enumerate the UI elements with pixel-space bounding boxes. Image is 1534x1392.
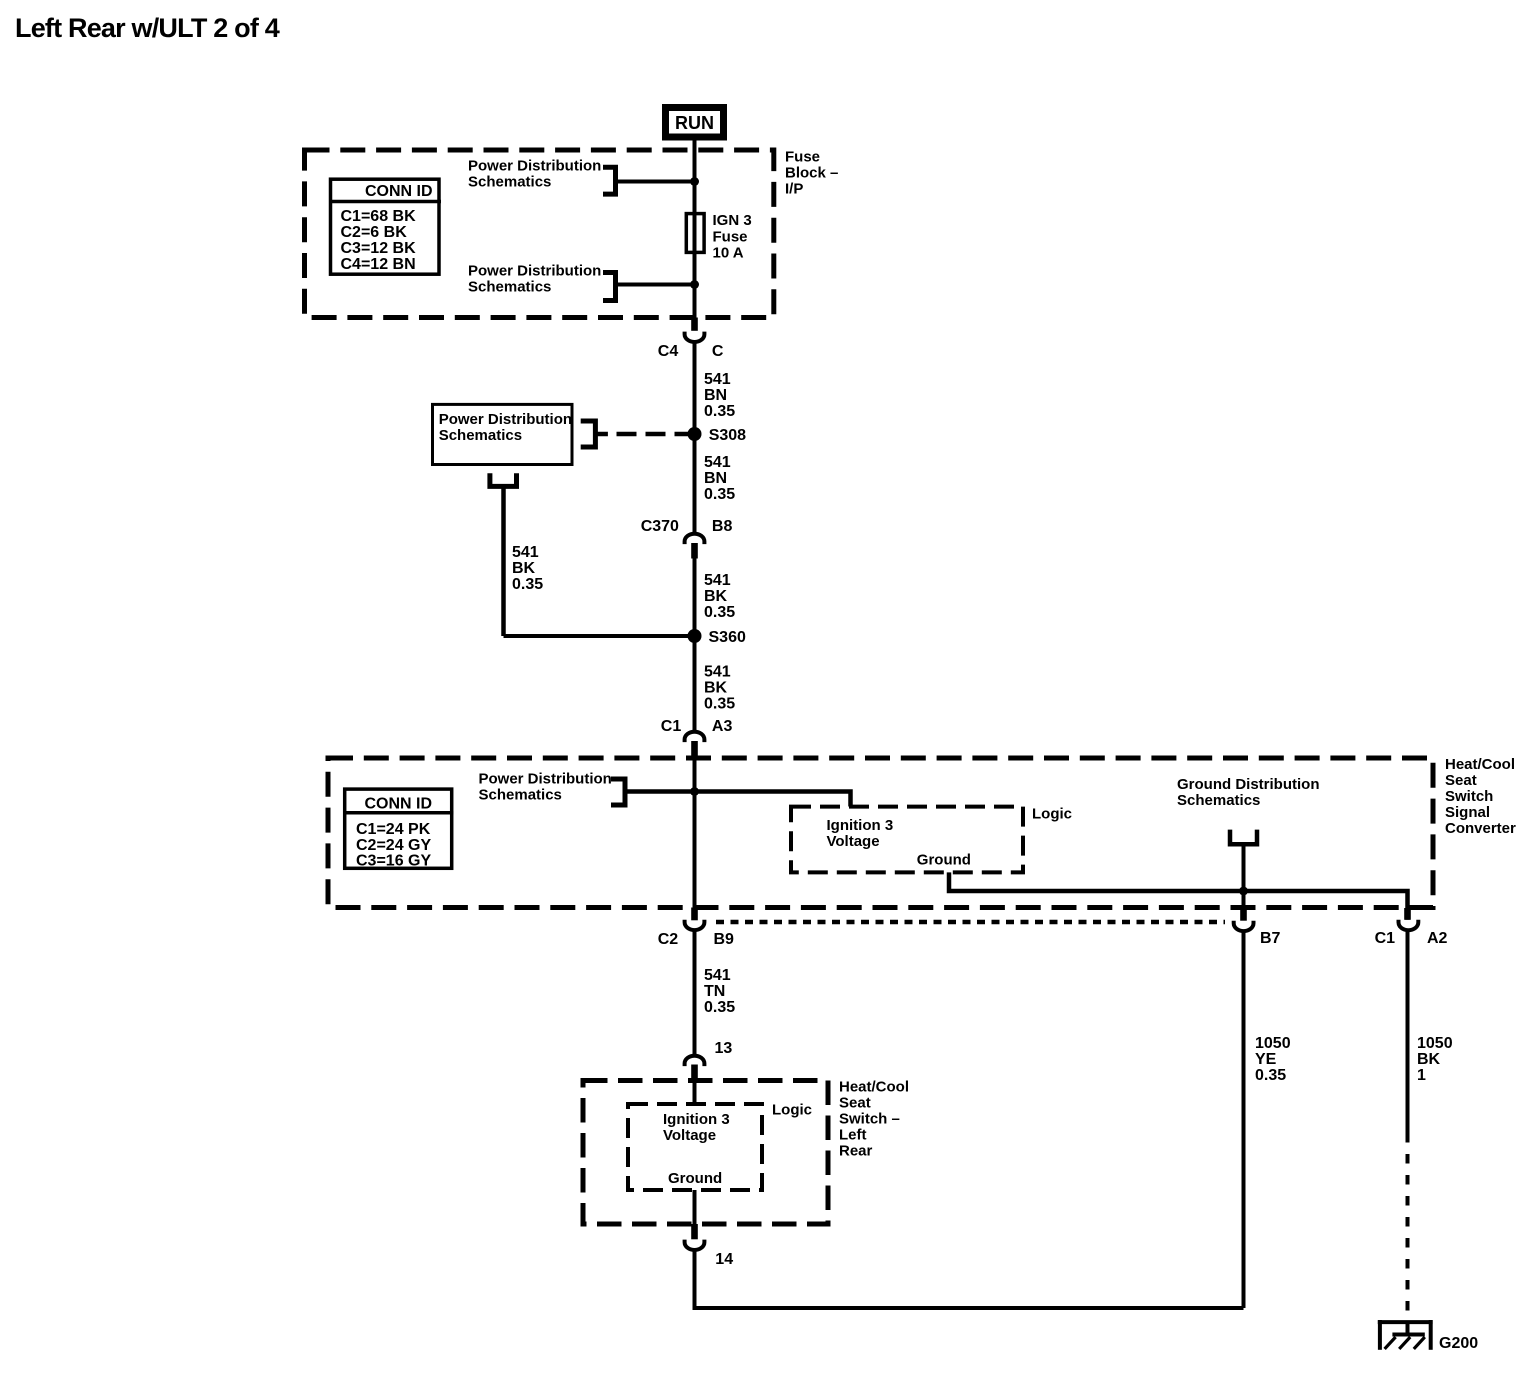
node junction lower xyxy=(690,280,699,289)
svg-text:0.35: 0.35 xyxy=(704,604,735,621)
wire A2 down solid xyxy=(1406,930,1410,1133)
svg-text:Logic: Logic xyxy=(1032,806,1072,823)
wire label 541 BN 0.35 (1) xyxy=(704,371,735,420)
bracket right of box xyxy=(581,421,596,447)
svg-text:Schematics: Schematics xyxy=(468,279,551,296)
wire stub below connector xyxy=(691,741,698,757)
svg-text:541: 541 xyxy=(704,454,731,471)
svg-text:Ground: Ground xyxy=(668,1170,722,1187)
svg-text:S308: S308 xyxy=(709,427,746,444)
svg-text:Schematics: Schematics xyxy=(1177,792,1260,809)
svg-text:Fuse: Fuse xyxy=(785,149,820,166)
svg-text:Ignition 3: Ignition 3 xyxy=(827,817,894,834)
svg-text:C2=24 GY: C2=24 GY xyxy=(356,837,431,854)
svg-text:Power Distribution: Power Distribution xyxy=(468,263,601,280)
svg-text:541: 541 xyxy=(704,967,731,984)
svg-text:BK: BK xyxy=(512,560,536,577)
bracket below power distribution box xyxy=(490,473,517,486)
svg-text:Left: Left xyxy=(839,1127,867,1144)
fuse block I/P dashed box xyxy=(305,150,774,318)
svg-text:B7: B7 xyxy=(1260,930,1281,947)
bracket upper power distribution xyxy=(603,167,616,194)
fuse IGN 3 10A xyxy=(686,213,704,253)
svg-text:Schematics: Schematics xyxy=(468,174,551,191)
svg-text:1050: 1050 xyxy=(1417,1035,1453,1052)
label Heat/Cool Seat Switch - Left Rear xyxy=(839,1079,909,1160)
svg-text:Power Distribution: Power Distribution xyxy=(479,771,612,788)
bracket lower power distribution xyxy=(603,273,616,301)
label Power Distribution Schematics (lower) xyxy=(468,263,601,296)
svg-text:0.35: 0.35 xyxy=(704,403,735,420)
svg-text:B8: B8 xyxy=(712,518,733,535)
svg-text:BN: BN xyxy=(704,387,727,404)
svg-text:1: 1 xyxy=(1417,1067,1426,1084)
svg-text:C1: C1 xyxy=(661,718,682,735)
wire label 541 BK 0.35 (3) xyxy=(704,572,735,621)
svg-text:Power Distribution: Power Distribution xyxy=(439,411,572,428)
logic dashed box (switch) xyxy=(628,1104,762,1190)
node S308 xyxy=(688,427,702,441)
wire label 541 BN 0.35 (2) xyxy=(704,454,735,503)
wire A2 dashed to ground xyxy=(1406,1133,1410,1321)
svg-text:Ignition 3: Ignition 3 xyxy=(663,1111,730,1128)
svg-text:A2: A2 xyxy=(1427,930,1448,947)
switch RUN (ignition switch position) xyxy=(666,108,724,138)
svg-text:0.35: 0.35 xyxy=(704,486,735,503)
svg-text:S360: S360 xyxy=(709,629,746,646)
svg-text:C1=24 PK: C1=24 PK xyxy=(356,821,431,838)
svg-text:13: 13 xyxy=(715,1040,733,1057)
svg-text:Ground Distribution: Ground Distribution xyxy=(1177,776,1319,793)
wire ground out of switch xyxy=(693,1190,697,1224)
svg-text:541: 541 xyxy=(512,544,539,561)
svg-text:CONN ID: CONN ID xyxy=(365,796,433,813)
wire B7 to bottom xyxy=(1242,933,1246,1309)
wire label 1050 BK 1 xyxy=(1417,1035,1453,1084)
wire nub from bracket xyxy=(595,432,608,437)
svg-text:Left Rear w/ULT 2 of 4: Left Rear w/ULT 2 of 4 xyxy=(15,13,280,43)
dotted wire C2/B9 to B7 xyxy=(716,920,1225,925)
svg-text:BK: BK xyxy=(704,588,728,605)
label Ignition 3 Voltage (switch) xyxy=(663,1111,730,1144)
wire from RUN to fuse xyxy=(693,140,697,213)
node junction upper xyxy=(690,177,699,186)
label Power Distribution Schematics (upper) xyxy=(468,158,601,191)
svg-text:Switch –: Switch – xyxy=(839,1111,900,1128)
wire stub below 13 xyxy=(691,1065,698,1082)
svg-text:Power Distribution: Power Distribution xyxy=(468,158,601,175)
svg-text:Seat: Seat xyxy=(839,1095,871,1112)
svg-text:TN: TN xyxy=(704,983,725,1000)
svg-text:Fuse: Fuse xyxy=(713,229,748,246)
svg-text:1050: 1050 xyxy=(1255,1035,1291,1052)
bracket power distribution converter xyxy=(611,779,625,805)
svg-text:Ground: Ground xyxy=(917,852,971,869)
wire stub into connector xyxy=(691,318,698,331)
box Power Distribution Schematics xyxy=(433,404,573,464)
svg-text:Schematics: Schematics xyxy=(479,787,562,804)
wire A3 into converter xyxy=(693,757,697,908)
wire bracket to ignition3 logic xyxy=(625,792,851,807)
svg-text:Voltage: Voltage xyxy=(663,1127,716,1144)
wire stub A2 xyxy=(1404,908,1411,920)
svg-text:B9: B9 xyxy=(714,931,735,948)
wire B8 to S360 xyxy=(693,558,697,636)
svg-text:14: 14 xyxy=(715,1251,733,1268)
connector B7 cup xyxy=(1234,921,1254,931)
svg-text:Signal: Signal xyxy=(1445,804,1490,821)
wire ground from logic box to A2 xyxy=(949,872,1408,919)
svg-text:541: 541 xyxy=(704,371,731,388)
node junction B7 xyxy=(1239,887,1248,896)
svg-text:0.35: 0.35 xyxy=(512,576,543,593)
svg-text:0.35: 0.35 xyxy=(704,999,735,1016)
svg-text:C3=16 GY: C3=16 GY xyxy=(356,853,431,870)
svg-text:541: 541 xyxy=(704,572,731,589)
wire bracket to node xyxy=(616,283,696,287)
svg-text:Block –: Block – xyxy=(785,165,838,182)
svg-text:C1: C1 xyxy=(1375,930,1396,947)
svg-text:A3: A3 xyxy=(712,718,733,735)
connector C1/A2 cup xyxy=(1399,920,1419,930)
svg-text:BK: BK xyxy=(704,680,728,697)
label IGN 3 Fuse 10 A xyxy=(713,212,752,262)
CONN ID table (converter) xyxy=(343,789,453,869)
svg-text:C2=6 BK: C2=6 BK xyxy=(341,224,408,241)
svg-text:BK: BK xyxy=(1417,1051,1441,1068)
svg-text:C3=12 BK: C3=12 BK xyxy=(341,240,417,257)
svg-text:541: 541 xyxy=(704,664,731,681)
wire 14 down and right to B7 wire xyxy=(695,1252,1244,1309)
svg-text:Rear: Rear xyxy=(839,1143,873,1160)
wire fuse to connector C4 xyxy=(693,253,697,318)
svg-text:Heat/Cool: Heat/Cool xyxy=(1445,756,1515,773)
wire label 541 BK 0.35 (left branch) xyxy=(512,544,543,593)
wire C to S308 xyxy=(693,344,697,534)
connector C370/B8 dome xyxy=(685,534,705,544)
svg-text:Seat: Seat xyxy=(1445,772,1477,789)
wire label 1050 YE 0.35 xyxy=(1255,1035,1291,1084)
switch dashed box Heat/Cool Seat Switch Left Rear xyxy=(583,1081,828,1225)
wire 13 into switch xyxy=(693,1081,697,1104)
wire B9 down to 13 xyxy=(693,932,697,1055)
CONN ID table (fuse block) xyxy=(329,179,441,274)
connector C1/A3 dome xyxy=(685,732,705,742)
svg-text:Logic: Logic xyxy=(772,1102,812,1119)
logic dashed box (converter) xyxy=(791,807,1023,873)
svg-text:RUN: RUN xyxy=(675,113,714,133)
svg-text:10 A: 10 A xyxy=(713,245,744,262)
node junction on main wire xyxy=(690,787,699,796)
wire B7 down to connector xyxy=(1242,891,1246,920)
connector C4/C cup xyxy=(685,332,705,342)
dashed wire to S308 xyxy=(617,432,695,437)
label Fuse Block - I/P xyxy=(785,149,838,198)
ground G200 symbol xyxy=(1378,1320,1433,1350)
wire left branch to S360 xyxy=(504,634,696,638)
svg-text:BN: BN xyxy=(704,470,727,487)
converter dashed box Heat/Cool Seat Switch Signal Converter xyxy=(328,758,1433,908)
svg-text:Schematics: Schematics xyxy=(439,427,522,444)
wire stub B7 xyxy=(1240,908,1247,921)
svg-text:Switch: Switch xyxy=(1445,788,1493,805)
svg-text:0.35: 0.35 xyxy=(1255,1067,1286,1084)
svg-text:C4=12 BN: C4=12 BN xyxy=(341,256,416,273)
bracket ground distribution xyxy=(1230,830,1257,845)
wire ground distribution down xyxy=(1242,844,1246,891)
svg-text:IGN 3: IGN 3 xyxy=(713,212,752,229)
svg-text:CONN ID: CONN ID xyxy=(365,183,433,200)
label Power Distribution Schematics (converter) xyxy=(479,771,612,804)
svg-text:C4: C4 xyxy=(658,343,679,360)
svg-text:Heat/Cool: Heat/Cool xyxy=(839,1079,909,1096)
svg-text:0.35: 0.35 xyxy=(704,696,735,713)
wire bracket to node xyxy=(616,180,696,184)
svg-text:C1=68 BK: C1=68 BK xyxy=(341,208,417,225)
connector C2/B9 cup xyxy=(685,920,705,930)
label Ignition 3 Voltage xyxy=(827,817,894,850)
wire left branch down xyxy=(501,486,506,636)
svg-text:C2: C2 xyxy=(658,931,679,948)
svg-text:Voltage: Voltage xyxy=(827,833,880,850)
connector 14 cup xyxy=(685,1240,705,1250)
wire label 541 BK 0.35 (4) xyxy=(704,664,735,713)
wire stub C2/B9 above connector xyxy=(691,908,698,921)
node S360 xyxy=(688,629,702,643)
svg-text:I/P: I/P xyxy=(785,181,803,198)
svg-text:C: C xyxy=(712,343,724,360)
svg-text:Converter: Converter xyxy=(1445,820,1516,837)
wire stub above 14 xyxy=(691,1224,698,1239)
svg-text:C370: C370 xyxy=(641,518,679,535)
wire label 541 TN 0.35 xyxy=(704,967,735,1016)
label Ground Distribution Schematics xyxy=(1177,776,1319,809)
connector 13 dome xyxy=(685,1056,705,1066)
label Heat/Cool Seat Switch Signal Converter xyxy=(1445,756,1516,837)
wire stub below connector xyxy=(691,543,698,559)
wire S360 to C1 xyxy=(693,636,697,731)
svg-text:YE: YE xyxy=(1255,1051,1277,1068)
svg-text:G200: G200 xyxy=(1439,1335,1478,1352)
